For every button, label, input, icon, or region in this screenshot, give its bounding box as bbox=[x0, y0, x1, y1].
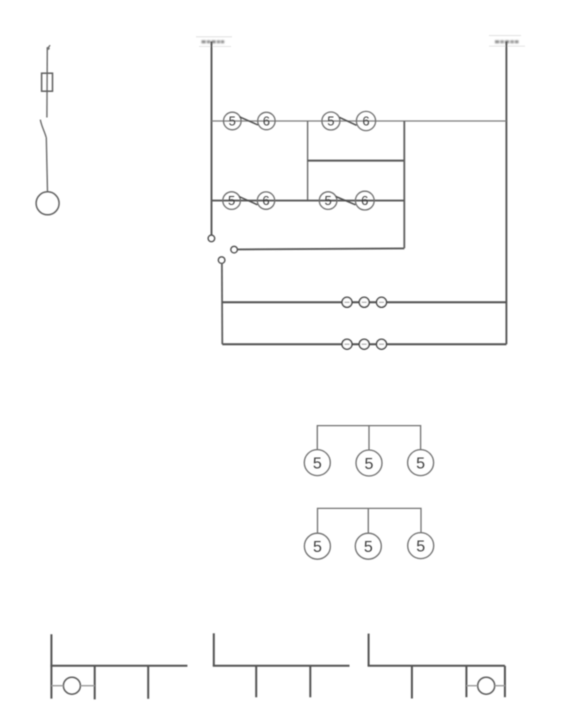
vertical branch wire x307 bbox=[307, 121, 309, 201]
svg-text:6: 6 bbox=[262, 193, 269, 208]
group2 bracket bbox=[318, 508, 422, 533]
wire node c down bbox=[221, 263, 223, 344]
group1 circle 5 middle bbox=[356, 450, 382, 476]
svg-text:5: 5 bbox=[313, 539, 322, 556]
contact pair K3 circle 5 bbox=[223, 192, 241, 210]
feeder3 drop1 bbox=[411, 666, 413, 699]
contact pair K1 circle 5 bbox=[224, 112, 242, 130]
right busbar label smudge bbox=[489, 35, 521, 37]
contact pair K1 circle 6 bbox=[258, 112, 275, 129]
svg-text:6: 6 bbox=[361, 193, 368, 208]
horizontal link wire A bbox=[222, 301, 506, 303]
feeder3 riser bbox=[368, 634, 370, 666]
contact pair K2 circle 6 bbox=[356, 111, 375, 130]
svg-text:5: 5 bbox=[365, 456, 374, 473]
connector circles on wire A bbox=[342, 297, 352, 307]
switch QS blade bbox=[40, 120, 46, 138]
contact pair K3 circle 6 bbox=[257, 192, 274, 209]
fuse F1 bbox=[42, 73, 53, 91]
feeder3 drop2 bbox=[465, 666, 467, 697]
group2 circle 5 left bbox=[304, 533, 330, 559]
switch contact node c bbox=[218, 257, 225, 264]
group2 circle 5 middle bbox=[355, 533, 381, 559]
contact pair K4 circle 6 bbox=[355, 191, 374, 210]
contact pair K2 circle 5 bbox=[322, 112, 340, 130]
row2 wire bbox=[212, 200, 405, 202]
feeder1 drop2 bbox=[147, 666, 149, 699]
feeder1 meter circle bbox=[63, 677, 80, 694]
svg-text:5: 5 bbox=[416, 455, 425, 472]
svg-text:5: 5 bbox=[228, 193, 235, 208]
group2 circle 5 right bbox=[408, 533, 434, 559]
feeder3 drop3 bbox=[504, 666, 506, 697]
middle horizontal wire bbox=[308, 160, 405, 162]
right bus vertical bbox=[505, 42, 507, 345]
contact pair K4 link bbox=[336, 197, 356, 205]
feeder3 meter stubs bbox=[466, 685, 477, 687]
feeder3 meter circle bbox=[478, 677, 495, 694]
feeder2 drop2 bbox=[309, 666, 311, 698]
feeder3 bus bbox=[368, 665, 505, 667]
wire switch to meter circle bbox=[46, 137, 47, 191]
vertical branch wire x404 bbox=[403, 121, 405, 248]
wire top to fuse F1 bbox=[46, 47, 48, 117]
feeder1 riser bbox=[50, 634, 52, 698]
group1 circle 5 left bbox=[304, 450, 330, 476]
left busbar label smudge bbox=[196, 36, 232, 38]
connector circles on wire B bbox=[342, 339, 352, 349]
svg-text:5: 5 bbox=[416, 538, 425, 555]
svg-text:5: 5 bbox=[364, 539, 373, 556]
feeder2 riser bbox=[213, 633, 215, 666]
left bus vertical bbox=[211, 42, 213, 236]
feeder1 bus bbox=[50, 665, 187, 667]
svg-text:5: 5 bbox=[313, 455, 322, 472]
row1 wire bbox=[212, 120, 507, 122]
svg-text:5: 5 bbox=[324, 193, 331, 208]
fuse column top tick bbox=[47, 45, 50, 48]
horizontal link wire B bbox=[222, 343, 506, 345]
switch contact node a bbox=[208, 235, 215, 242]
contact pair K4 circle 5 bbox=[319, 192, 337, 210]
group1 bracket bbox=[317, 426, 420, 450]
svg-text:5: 5 bbox=[229, 114, 236, 129]
svg-text:6: 6 bbox=[263, 114, 270, 129]
switch contact node b bbox=[231, 246, 238, 253]
group1 circle 5 right bbox=[408, 450, 434, 476]
wire node b to x404 bbox=[238, 248, 405, 249]
svg-text:5: 5 bbox=[327, 114, 334, 129]
meter circle PV bbox=[36, 192, 59, 215]
feeder2 drop1 bbox=[255, 666, 257, 698]
feeder1 meter stubs bbox=[51, 685, 63, 687]
feeder2 bus bbox=[213, 665, 350, 667]
feeder1 drop1 bbox=[94, 666, 96, 700]
contact pair K1 link bbox=[240, 117, 259, 125]
svg-text:6: 6 bbox=[362, 114, 369, 129]
contact pair K2 link bbox=[339, 117, 356, 125]
contact pair K3 link bbox=[239, 197, 258, 205]
